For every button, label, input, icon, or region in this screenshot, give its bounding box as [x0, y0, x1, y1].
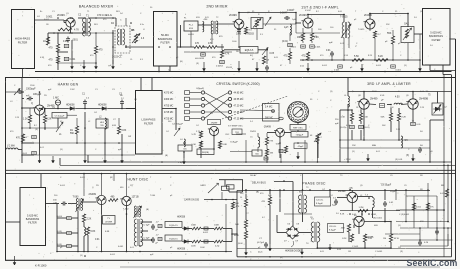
svg-text:0.001: 0.001 [203, 232, 209, 234]
switch contact right deck pin 1 [228, 91, 231, 94]
svg-text:C 6μF: C 6μF [144, 238, 151, 240]
wire 5.625 filter output loop outer [429, 65, 431, 71]
resistor 100K c [192, 240, 201, 243]
resistor 8.2K harm [43, 115, 46, 123]
svg-text:C9 50μμF: C9 50μμF [381, 185, 392, 187]
wire Q2 collector to IF strip [238, 13, 240, 20]
resistor 56K limiter [389, 113, 392, 121]
capacitor (0.01) a [350, 125, 355, 128]
wire into 50-MC filter [125, 45, 127, 47]
svg-text:0.001: 0.001 [396, 70, 402, 72]
svg-text:FL-1: FL-1 [189, 25, 194, 27]
svg-text:5.625-MC: 5.625-MC [430, 31, 442, 35]
wire 3rd IF supply rail [348, 91, 452, 93]
resistor 33K xtal osc [265, 149, 268, 156]
resistor 1.2K harm [28, 115, 31, 123]
switch contact left deck pin 5 [201, 117, 204, 120]
svg-text:H04558: H04558 [177, 217, 186, 219]
transformer T4 phase [311, 222, 314, 242]
svg-text:EQ8-6.5: EQ8-6.5 [245, 50, 254, 52]
svg-text:0.001: 0.001 [70, 59, 76, 61]
svg-text:2N499B: 2N499B [419, 98, 428, 101]
rotary switch ring [288, 102, 309, 123]
wire hunt left column [56, 204, 58, 252]
wire hunt verticals [101, 205, 103, 252]
capacitor 0.38 boxed 1 [64, 44, 69, 47]
resistor 47K carrier [231, 202, 234, 209]
transistor Q9 2N499B (limiter) [408, 99, 418, 109]
resistor 8.2K [310, 33, 313, 41]
wire 5.625 filter output right [449, 38, 455, 40]
svg-text:EQ: EQ [250, 55, 253, 57]
svg-text:(B): (B) [180, 61, 183, 63]
svg-text:H-00033: H-00033 [245, 34, 255, 36]
svg-text:0.001: 0.001 [440, 193, 446, 195]
transistor Q6 2N499 (xtal osc) [208, 120, 221, 125]
svg-text:470: 470 [49, 47, 54, 50]
svg-text:T-5625: T-5625 [340, 16, 348, 19]
svg-text:4.3x: 4.3x [140, 24, 144, 26]
wire into 5.625 filter top [414, 33, 422, 35]
ground 470 [95, 60, 97, 69]
svg-text:1.2M: 1.2M [359, 207, 364, 209]
diode H04558 b [184, 240, 188, 244]
junction dots [70, 17, 72, 19]
wire bottom filter top link [40, 174, 42, 188]
resistor 470 mid-1 [194, 46, 204, 49]
contact 580 [279, 117, 283, 120]
svg-text:100K: 100K [191, 225, 197, 227]
wire 3rd IF rows [340, 109, 352, 111]
rotary contact 4 [299, 119, 302, 122]
svg-text:0.001: 0.001 [60, 185, 66, 187]
ground harm e [121, 155, 123, 163]
wire IF base row [296, 22, 301, 24]
svg-text:(0.01): (0.01) [364, 127, 370, 129]
coil hunt left [84, 227, 86, 236]
rotary contact 11 [295, 102, 298, 105]
svg-text:C4 960μμF: C4 960μμF [172, 124, 184, 126]
5.625-MC bandpass filter block (bottom) [20, 188, 46, 246]
svg-text:1W: 1W [128, 136, 131, 138]
transistor Q5 2N499 (harm gen) [35, 105, 45, 115]
rotary contact 7 [289, 114, 292, 117]
svg-text:H04558: H04558 [177, 249, 186, 251]
svg-text:1M: 1M [348, 251, 351, 253]
wire vertical bus x=58 [57, 33, 59, 44]
svg-text:5.5K: 5.5K [354, 55, 359, 58]
svg-text:(X): (X) [352, 151, 355, 153]
high-pass filter block [12, 10, 35, 69]
wire harm to LPF [126, 108, 135, 110]
svg-text:6.8K: 6.8K [276, 144, 281, 146]
svg-text:(X): (X) [406, 155, 409, 157]
wire EQ row [224, 49, 240, 51]
svg-text:2N499: 2N499 [229, 13, 237, 17]
i-f transformer (dashed can) [115, 26, 130, 53]
svg-text:FILTER: FILTER [18, 40, 27, 44]
svg-text:0.001: 0.001 [322, 65, 328, 67]
wire phase mesh [277, 232, 286, 234]
svg-text:46.55 MC: 46.55 MC [234, 99, 244, 101]
capacitor 0.001 g2 [391, 65, 396, 68]
ground below bottom frame left [14, 256, 16, 265]
wire phase left mesh [245, 190, 247, 199]
transistor Q3 2N499 (1st IF) [303, 18, 313, 28]
switch contact left deck pin 1 [201, 91, 204, 94]
resistor 5.5K [352, 59, 364, 62]
ground harm d [104, 155, 106, 163]
wire delay bus lower [60, 164, 456, 166]
potentiometer boxed (mixer bias) [251, 18, 263, 29]
wire D4 vertical [112, 30, 114, 64]
resistor 5.5K ref [199, 141, 202, 148]
wire carrier row [204, 199, 237, 201]
wire: band divider (middle/bottom) lower line [5, 173, 456, 175]
capacitor 1000 [238, 28, 240, 30]
resistor 18K [301, 33, 304, 41]
wire 50-MC filter grounds [158, 66, 160, 72]
trimmer 0.05 [262, 48, 268, 56]
svg-text:(0.01): (0.01) [282, 41, 288, 43]
svg-text:0.001: 0.001 [44, 19, 50, 21]
capacitor 0.01 limiter [411, 122, 416, 125]
svg-text:6.8K: 6.8K [122, 130, 127, 132]
wire delay bus link [274, 181, 293, 183]
capacitor right lower [419, 240, 421, 242]
capacitor 0.001 xtal osc a [264, 157, 268, 160]
wire top-band extra mesh [48, 32, 113, 34]
ground phase left b [269, 244, 271, 251]
svg-text:L-2 MH: L-2 MH [7, 146, 15, 148]
capacitor 0.0047 [284, 17, 286, 19]
svg-text:2N499: 2N499 [211, 122, 218, 124]
capacitor 0.01 hunt b [67, 231, 72, 234]
switch contact right deck pin 5 [228, 117, 231, 120]
svg-text:K-R 1000: K-R 1000 [35, 264, 47, 268]
svg-text:250V: 250V [372, 91, 377, 93]
resistor 100K a [192, 227, 201, 230]
wire: left frame vertical [5, 78, 7, 261]
svg-text:BALANCED MIXER: BALANCED MIXER [79, 5, 114, 9]
ground 3rd IF [367, 154, 369, 161]
svg-text:HD6008: HD6008 [98, 104, 107, 106]
svg-text:0.001: 0.001 [376, 65, 382, 67]
wire LPF to switch rows [162, 108, 176, 110]
wire harm gen mesh rows [22, 91, 24, 93]
coil 1uH [290, 24, 291, 35]
rotary contact 1 [305, 111, 308, 114]
svg-text:4.50: 4.50 [395, 97, 400, 99]
svg-text:C 6μF: C 6μF [144, 225, 151, 227]
svg-text:(B): (B) [280, 257, 283, 259]
switch contact left deck pin 2 [201, 97, 204, 100]
resistor 5.6K 3rd IF [359, 113, 362, 121]
resistor 6.8K ref [218, 141, 221, 148]
capacitor right column [436, 229, 438, 231]
svg-text:47K: 47K [236, 206, 240, 208]
capacitor 0.01 hunt c [67, 244, 72, 247]
wire delay-bus drop to phase [292, 185, 294, 227]
capacitor 0.0053 boxed [220, 60, 225, 63]
wire relay feed [219, 179, 243, 181]
transistor Q4 2N499 (2nd IF) [365, 19, 375, 29]
svg-text:47.20 MC: 47.20 MC [234, 106, 244, 108]
svg-text:8.2K: 8.2K [342, 238, 347, 240]
svg-text:+ 250V: + 250V [344, 159, 351, 161]
wire harm bottom row [22, 142, 34, 144]
resistor 1.5K 3rd IF [350, 113, 353, 121]
switch contact left deck pin 4 [201, 110, 204, 113]
trimmer arrow right [265, 17, 271, 26]
ground Q1 stage [71, 60, 73, 69]
ground phase left a [245, 248, 247, 255]
capacitor 0.01 left b [32, 151, 37, 154]
svg-text:H-0.0033: H-0.0033 [195, 58, 205, 60]
wire 3rd IF verticals to delay mesh [347, 112, 349, 162]
svg-text:47.25 MC: 47.25 MC [234, 119, 244, 121]
svg-text:HD6008: HD6008 [66, 104, 75, 106]
box 41uuF [294, 143, 307, 149]
svg-text:4360 MC: 4360 MC [164, 99, 174, 101]
wire harm gen vertical drops [39, 115, 41, 155]
svg-text:4.7K: 4.7K [74, 29, 79, 32]
svg-text:100K: 100K [200, 247, 205, 249]
svg-text:C5 42μμF: C5 42μμF [55, 116, 65, 118]
capacitor 0.001 hunt a [204, 227, 208, 230]
capacitor 0.001 IF a [301, 45, 306, 48]
coil L5 xtal osc [258, 137, 260, 147]
svg-text:(B): (B) [165, 155, 168, 157]
svg-text:(X): (X) [80, 255, 83, 257]
svg-text:(B): (B) [146, 209, 149, 211]
resistor 1K bias [46, 37, 49, 45]
rotary contact 9 [289, 107, 292, 110]
wire hunt collectors to band top [101, 174, 103, 196]
coil L 2nd mixer [203, 22, 204, 32]
wire harm-gen left bus [21, 78, 23, 163]
rotary contact 8 [288, 111, 291, 114]
svg-text:0.001: 0.001 [334, 70, 340, 72]
wire: bottom frame line [5, 259, 456, 261]
svg-text:8.2K: 8.2K [340, 214, 345, 216]
svg-text:(X): (X) [35, 129, 38, 131]
svg-text:8.5μμF: 8.5μμF [316, 203, 324, 205]
box EQ8-8.5 [165, 235, 182, 241]
wire: band divider (top/middle) upper rail [35, 71, 452, 73]
ground xtal osc [183, 158, 185, 164]
resistor 4.7 Q4 [373, 31, 376, 38]
svg-text:1.2K: 1.2K [15, 117, 20, 119]
ground IF a [307, 63, 309, 71]
svg-text:27K: 27K [270, 141, 274, 143]
svg-text:5.7K: 5.7K [196, 131, 201, 133]
resistor 470 IF emitter [306, 52, 309, 60]
svg-text:0.001: 0.001 [291, 47, 297, 49]
svg-text:12T1B: 12T1B [132, 195, 139, 198]
resistor 470 divider 2 [56, 56, 59, 63]
coil 4.5 between [394, 103, 402, 104]
svg-text:H04558 DIODES: H04558 DIODES [285, 251, 303, 253]
svg-text:T-560: T-560 [150, 195, 156, 197]
wire mesh row y=52 [58, 51, 68, 53]
capacitor 0.001 hunt b [204, 240, 208, 243]
svg-text:0.001: 0.001 [416, 207, 422, 209]
svg-text:EQ8-8.5: EQ8-8.5 [169, 239, 178, 241]
svg-text:1.2K: 1.2K [23, 119, 28, 121]
svg-text:FILTER: FILTER [160, 41, 169, 45]
svg-text:1μH: 1μH [284, 27, 289, 29]
svg-text:BANDPASS: BANDPASS [158, 37, 173, 41]
box Tb1 left [232, 129, 242, 135]
svg-text:1Ω W: 1Ω W [394, 238, 399, 240]
varicap limiter [432, 103, 443, 115]
relay armature arm [208, 183, 219, 193]
svg-text:XT TEMP OSC: XT TEMP OSC [228, 126, 243, 128]
svg-text:0.05: 0.05 [270, 53, 275, 55]
svg-text:2N499: 2N499 [250, 131, 257, 133]
resistor right column a [412, 203, 415, 210]
capacitor 0.001 g1 [338, 65, 343, 68]
svg-text:EQ8-4.5: EQ8-4.5 [169, 225, 178, 227]
svg-text:0.001: 0.001 [118, 246, 124, 248]
svg-text:0.001: 0.001 [110, 254, 116, 256]
svg-text:H-41B: H-41B [188, 34, 194, 36]
wire: inner bottom rail (phase disc) [237, 256, 452, 258]
diode bridge phase disc [286, 226, 299, 239]
box REF OSC [290, 125, 306, 131]
svg-text:2.2K: 2.2K [87, 219, 92, 221]
svg-text:4755 MC: 4755 MC [164, 106, 174, 108]
wire filter to T-560 [45, 203, 59, 205]
svg-text:Q: Q [31, 102, 33, 105]
ground 2nd mixer b [238, 61, 240, 71]
svg-text:9R(2B): 9R(2B) [202, 152, 209, 154]
wire: band divider (middle/bottom) upper line [5, 169, 456, 171]
transistor Q12 2N499 (phase) [347, 192, 357, 202]
ground phase T4 [329, 244, 331, 250]
ground T1 [83, 60, 85, 69]
svg-text:2N499: 2N499 [370, 98, 378, 101]
resistor 470 IF input [288, 52, 291, 60]
transformer hunt disc (center tapped) [134, 219, 136, 246]
resistor 2.2K hunt [82, 214, 85, 222]
resistor 55K vert [391, 36, 394, 44]
wire LPF verticals to divider [140, 78, 142, 90]
wire delay bus left drops [87, 155, 89, 162]
svg-text:(X): (X) [398, 225, 401, 227]
svg-text:8.5μμF: 8.5μμF [329, 229, 337, 231]
resistor 468 phase [347, 224, 350, 232]
diode H04558 a [184, 227, 188, 231]
svg-text:DELAY: DELAY [250, 174, 257, 177]
wire hunt bottom rail [57, 251, 232, 253]
svg-text:CRYSTAL SWITCH (K-2000): CRYSTAL SWITCH (K-2000) [216, 82, 259, 86]
svg-text:0.0047: 0.0047 [280, 12, 288, 15]
resistor 470 phase [268, 197, 271, 205]
svg-text:3RD I-F AMPL & LIMITER: 3RD I-F AMPL & LIMITER [367, 82, 411, 86]
wire Q4 collector right [369, 14, 371, 20]
resistor 6.8K harm [117, 126, 120, 134]
svg-text:6.8K: 6.8K [112, 125, 117, 127]
resistor 8.2K lower [376, 59, 388, 62]
svg-text:(X): (X) [400, 251, 403, 253]
svg-text:1μH: 1μH [292, 19, 296, 21]
svg-text:4.7K: 4.7K [225, 54, 230, 56]
ground harm a [39, 155, 41, 163]
svg-text:1.2H: 1.2H [368, 238, 373, 240]
svg-text:LO: LO [37, 16, 40, 18]
svg-text:8.2K: 8.2K [368, 55, 373, 57]
svg-text:0.0053: 0.0053 [226, 67, 233, 69]
resistor 47 [262, 56, 265, 64]
svg-text:1M: 1M [383, 238, 386, 240]
box R2B [197, 149, 214, 155]
svg-text:2N499: 2N499 [299, 13, 307, 17]
svg-text:CARR ON DIS: CARR ON DIS [184, 198, 200, 201]
capacitor H-0.0033 [201, 53, 206, 56]
coil 3rd IF input [348, 96, 349, 107]
svg-text:5.5K: 5.5K [344, 55, 349, 57]
wire top band bias row [296, 32, 340, 34]
svg-text:3μμF: 3μμF [332, 205, 338, 207]
wire limiter lower mesh [340, 139, 430, 141]
capacitor (0.01) b [359, 125, 364, 128]
resistor 3.3 emitter [244, 27, 247, 34]
wire: right frame vertical [455, 39, 457, 260]
wire xtal osc bottom [183, 152, 185, 158]
resistor 470 mid-2 [207, 46, 217, 49]
ground mixer diode [112, 60, 114, 69]
svg-text:1 MC: 1 MC [70, 89, 75, 91]
svg-text:2N499: 2N499 [338, 190, 346, 193]
svg-text:33K: 33K [270, 153, 274, 155]
svg-text:100K: 100K [214, 225, 220, 227]
svg-text:0.001: 0.001 [371, 214, 377, 216]
resistor 2.2K limiter [397, 113, 400, 121]
svg-text:(0.2): (0.2) [258, 252, 263, 254]
switch contact right deck pin 4 [228, 110, 231, 113]
svg-text:2ND MIXER: 2ND MIXER [206, 5, 228, 9]
svg-text:2N499: 2N499 [264, 127, 271, 129]
equalizer box EQ8-6.5 [240, 47, 258, 54]
svg-text:8.2K: 8.2K [378, 55, 383, 58]
svg-text:6BH: 6BH [372, 145, 377, 147]
trimmer C5 42uuF boxed [52, 113, 67, 119]
svg-text:0.38: 0.38 [63, 41, 68, 43]
svg-text:C4 0.8-: C4 0.8- [316, 200, 323, 202]
svg-text:2N499: 2N499 [57, 13, 65, 17]
svg-text:HARM GEN: HARM GEN [58, 83, 79, 87]
svg-text:0.01: 0.01 [326, 50, 331, 52]
wire Q3 collector [307, 15, 309, 19]
svg-text:0.0047: 0.0047 [287, 9, 295, 12]
capacitor 0.001 IF b [310, 45, 315, 48]
svg-text:470: 470 [99, 49, 104, 52]
svg-text:15K: 15K [352, 145, 356, 147]
svg-text:(3): (3) [330, 91, 333, 93]
svg-text:2.2K: 2.2K [396, 129, 401, 131]
capacitor 0.01 IF [288, 43, 293, 46]
coil 9H [401, 136, 403, 148]
svg-text:41μμF: 41μμF [298, 146, 305, 148]
transistor Q1 2N499 [66, 18, 75, 27]
capacitor 0.001 bypass boxed 2 [64, 57, 69, 60]
svg-text:2.2K: 2.2K [402, 117, 407, 119]
wire filter output [177, 46, 184, 48]
transistor Q8 2N499 (3rd IF) [359, 99, 369, 109]
rotary contact 6 [291, 117, 294, 120]
